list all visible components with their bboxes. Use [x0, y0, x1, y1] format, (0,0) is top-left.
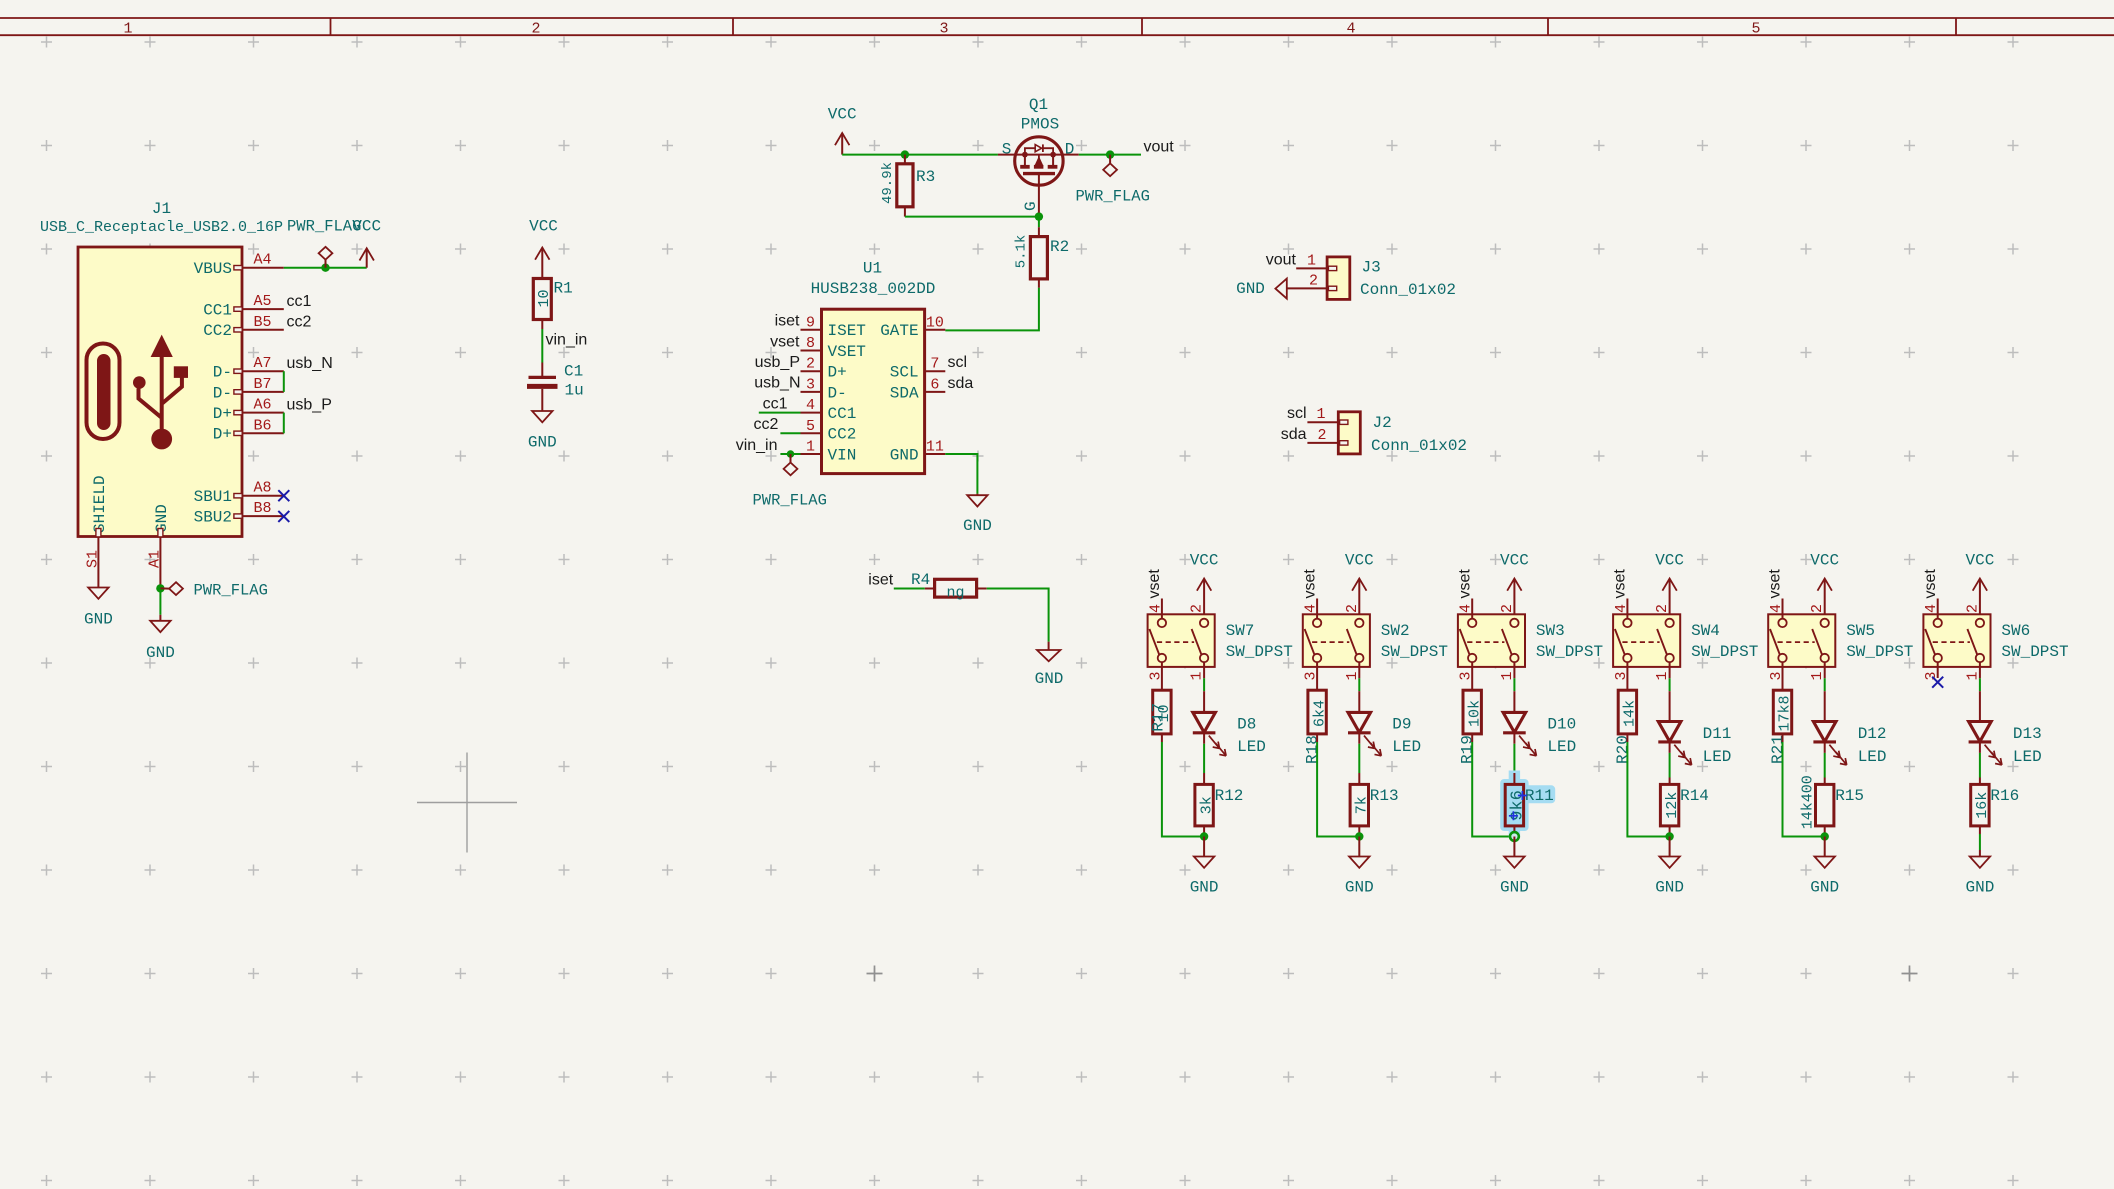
wire usb_P (A6-B6) [283, 413, 285, 434]
power VCC at SW6 [1965, 551, 1994, 619]
junction [1665, 832, 1673, 840]
pin 1 of SW7 [1189, 662, 1206, 680]
svg-text:VIN: VIN [828, 446, 857, 464]
power VCC at SW7 [1190, 551, 1219, 619]
no-connect X [1932, 677, 1943, 688]
ground [88, 588, 108, 599]
svg-text:PMOS: PMOS [1021, 116, 1059, 134]
svg-text:2: 2 [1809, 604, 1826, 613]
pin 3 of SW2 [1303, 671, 1320, 680]
LED D10 [1503, 691, 1576, 756]
power VCC [541, 248, 543, 279]
wire switch pin1 to LED [1358, 678, 1360, 691]
LED D8 [1193, 691, 1266, 756]
switch SW4 SW_DPST [1613, 614, 1758, 667]
selection anchor marks [1509, 791, 1527, 820]
svg-text:VCC: VCC [1345, 551, 1374, 569]
svg-text:SW_DPST: SW_DPST [1381, 643, 1448, 661]
power VCC [1669, 579, 1671, 620]
wire LED to resistor [1203, 744, 1205, 773]
svg-text:D12: D12 [1858, 725, 1887, 743]
pin 3 of SW6 [1923, 671, 1940, 680]
svg-text:SCL: SCL [890, 364, 919, 382]
wire LED to resistor [1669, 753, 1671, 778]
svg-text:S1: S1 [84, 550, 101, 568]
svg-text:4: 4 [1923, 604, 1940, 613]
svg-text:CC2: CC2 [828, 426, 857, 444]
svg-text:9: 9 [806, 314, 815, 331]
svg-text:cc2: cc2 [753, 416, 778, 433]
svg-text:vout: vout [1144, 138, 1175, 155]
pin B6 of J1 [234, 417, 284, 435]
svg-text:SW3: SW3 [1536, 622, 1565, 640]
pin A8 of J1 [234, 480, 284, 498]
ground [1659, 857, 1679, 868]
svg-text:HUSB238_002DD: HUSB238_002DD [811, 280, 936, 298]
resistor R4 nq [911, 571, 987, 601]
svg-text:R20: R20 [1614, 735, 1632, 764]
svg-text:U1: U1 [863, 260, 882, 278]
svg-text:GATE: GATE [880, 322, 918, 340]
svg-text:J2: J2 [1373, 414, 1392, 432]
svg-text:D8: D8 [1237, 715, 1256, 733]
svg-text:D-: D- [213, 364, 232, 382]
resistor R1 [533, 279, 572, 320]
svg-text:LED: LED [1237, 738, 1266, 756]
svg-text:2: 2 [1654, 604, 1671, 613]
svg-text:12k: 12k [1664, 792, 1681, 819]
resistor R16 16k [1971, 778, 2020, 826]
pin A7 of J1 [234, 355, 284, 373]
junction [1355, 832, 1363, 840]
pin 4 of SW3 [1458, 599, 1475, 620]
svg-text:VSET: VSET [828, 343, 866, 361]
svg-text:vin_in: vin_in [736, 437, 778, 454]
svg-text:GND: GND [1965, 878, 1994, 896]
svg-text:R15: R15 [1835, 787, 1864, 805]
ground [967, 495, 987, 506]
svg-text:SBU1: SBU1 [194, 488, 232, 506]
svg-text:A1: A1 [146, 550, 163, 568]
wire to junction [1162, 742, 1204, 837]
svg-text:2: 2 [806, 356, 815, 373]
resistor R19 10k [1459, 662, 1484, 764]
svg-text:D9: D9 [1392, 715, 1411, 733]
ground [532, 411, 552, 422]
svg-text:D10: D10 [1547, 715, 1576, 733]
power VCC at SW3 [1500, 551, 1529, 619]
svg-text:4: 4 [1613, 604, 1630, 613]
pin 1 of SW4 [1654, 662, 1671, 680]
svg-text:A5: A5 [253, 293, 271, 310]
svg-text:VCC: VCC [1500, 551, 1529, 569]
resistor R17 10 [1149, 662, 1173, 742]
wire usb_N (A7-B7) [283, 371, 285, 392]
svg-text:2: 2 [1499, 604, 1516, 613]
pin A6 of J1 [234, 397, 284, 415]
LED D9 [1348, 691, 1421, 756]
svg-text:LED: LED [1547, 738, 1576, 756]
svg-text:R2: R2 [1050, 238, 1069, 256]
svg-text:SW_DPST: SW_DPST [2001, 643, 2068, 661]
svg-text:SW7: SW7 [1226, 622, 1255, 640]
power VCC [1203, 579, 1205, 620]
junction [1200, 832, 1208, 840]
svg-text:SW_DPST: SW_DPST [1691, 643, 1758, 661]
resistor R18 6k4 [1304, 662, 1329, 764]
pin A5 of J1 [234, 293, 284, 311]
svg-text:PWR_FLAG: PWR_FLAG [194, 581, 268, 599]
svg-text:C1: C1 [564, 363, 583, 381]
svg-text:B8: B8 [253, 500, 271, 517]
svg-text:scl: scl [948, 354, 968, 371]
wire switch pin1 to LED [1669, 678, 1671, 691]
svg-text:vin_in: vin_in [546, 331, 588, 348]
svg-text:R16: R16 [1990, 787, 2019, 805]
switch SW2 SW_DPST [1303, 614, 1448, 667]
pin 4 CC1 of U1 [801, 397, 857, 423]
svg-text:VBUS: VBUS [194, 260, 232, 278]
svg-text:vset: vset [1612, 569, 1629, 599]
svg-text:R1: R1 [554, 280, 573, 298]
power VCC at SW5 [1810, 551, 1839, 619]
svg-text:vset: vset [1301, 569, 1318, 599]
svg-text:B5: B5 [253, 314, 271, 331]
resistor R11 9k6 [1500, 771, 1555, 839]
svg-text:1: 1 [1307, 252, 1316, 269]
svg-text:16k: 16k [1974, 792, 1991, 819]
switch SW5 SW_DPST [1768, 614, 1913, 667]
svg-text:D11: D11 [1703, 725, 1732, 743]
power VCC above R1 [529, 218, 558, 279]
svg-text:LED: LED [2013, 748, 2042, 766]
pin 3 of SW4 [1613, 671, 1630, 680]
wire to junction [1783, 742, 1825, 837]
svg-text:G: G [1022, 201, 1040, 211]
transistor Q1 PMOS [998, 96, 1074, 213]
svg-text:7: 7 [930, 356, 939, 373]
svg-text:VCC: VCC [529, 218, 558, 236]
junction [321, 264, 329, 272]
connector J2 Conn_01x02 [1338, 412, 1467, 455]
svg-text:A6: A6 [253, 397, 271, 414]
svg-text:A7: A7 [253, 355, 271, 372]
no-connect on SBU2 [278, 511, 289, 522]
svg-text:D+: D+ [828, 364, 847, 382]
ground [1815, 857, 1835, 868]
svg-text:49.9k: 49.9k [880, 162, 896, 204]
IC U1 HUSB238_002DD [811, 260, 936, 474]
svg-text:4: 4 [1458, 604, 1475, 613]
svg-text:GND: GND [1035, 670, 1064, 688]
pin 4 of SW2 [1303, 599, 1320, 620]
pin 4 of SW5 [1768, 599, 1785, 620]
svg-text:1: 1 [1316, 406, 1325, 423]
pin 1 of J2 [1307, 421, 1338, 423]
svg-text:D-: D- [213, 384, 232, 402]
pin 3 of SW5 [1768, 671, 1785, 680]
junction [1035, 212, 1043, 220]
wire to junction [1627, 742, 1669, 837]
svg-text:VCC: VCC [1190, 551, 1219, 569]
svg-text:6: 6 [930, 376, 939, 393]
svg-text:10: 10 [536, 289, 553, 307]
pin 11 GND of U1 [890, 439, 946, 465]
power flag PWR_FLAG on GND [160, 581, 268, 599]
power VCC on VBUS [352, 218, 381, 268]
power GND arrow at J3 [1236, 279, 1287, 299]
svg-text:VCC: VCC [1810, 551, 1839, 569]
resistor R14 12k [1660, 778, 1709, 826]
ground [1194, 857, 1214, 868]
svg-text:17k8: 17k8 [1777, 695, 1794, 731]
svg-text:usb_N: usb_N [287, 355, 333, 372]
pin A4 of J1 [234, 252, 284, 270]
wire cc2 to CC2 [780, 432, 800, 434]
wire switch pin1 to LED [1203, 678, 1205, 691]
pin 1 of SW6 [1964, 662, 1981, 680]
wire switch pin1 to LED [1513, 678, 1515, 691]
pin 4 of SW4 [1613, 599, 1630, 620]
switch SW7 SW_DPST [1148, 614, 1293, 667]
pin 1 VIN of U1 [801, 439, 857, 465]
wire GND A1 [159, 578, 161, 588]
pin 6 SDA of U1 [890, 376, 946, 402]
svg-text:3: 3 [806, 376, 815, 393]
svg-text:cc1: cc1 [763, 396, 788, 413]
svg-text:vout: vout [1266, 251, 1297, 268]
wire iset to R4 [894, 588, 925, 590]
svg-text:CC1: CC1 [203, 302, 232, 320]
svg-text:vset: vset [1767, 569, 1784, 599]
svg-text:GND: GND [1810, 878, 1839, 896]
svg-text:SW4: SW4 [1691, 622, 1720, 640]
wire vin_in to VIN [780, 453, 800, 455]
svg-text:6k4: 6k4 [1311, 700, 1328, 727]
svg-text:GND: GND [1655, 878, 1684, 896]
svg-text:VCC: VCC [828, 106, 857, 124]
pin B7 of J1 [234, 376, 284, 394]
wire switch pin1 to LED [1824, 678, 1826, 691]
svg-text:iset: iset [775, 313, 800, 330]
svg-text:LED: LED [1703, 748, 1732, 766]
svg-text:R14: R14 [1680, 787, 1709, 805]
svg-text:vset: vset [1456, 569, 1473, 599]
wire VCC to S [842, 154, 998, 156]
svg-text:SW5: SW5 [1846, 622, 1875, 640]
svg-text:J3: J3 [1362, 259, 1381, 277]
ground [1037, 650, 1060, 661]
svg-text:SW_DPST: SW_DPST [1536, 643, 1603, 661]
svg-text:vset: vset [1922, 569, 1939, 599]
pin 2 of J2 [1307, 442, 1338, 444]
resistor R2 5.1k [1013, 227, 1069, 288]
wire VBUS [284, 267, 367, 269]
svg-text:GND: GND [890, 446, 919, 464]
pin A1 of J1 [146, 529, 163, 579]
svg-text:A4: A4 [253, 252, 271, 269]
svg-text:GND: GND [1236, 280, 1265, 298]
svg-text:R19: R19 [1459, 735, 1477, 764]
wire gate to R2 [1038, 217, 1040, 228]
svg-text:5: 5 [1751, 21, 1760, 38]
power VCC [366, 248, 368, 267]
pin 2 D+ of U1 [801, 356, 847, 382]
pin 10 GATE of U1 [880, 314, 945, 340]
junction (selected) [1510, 832, 1519, 841]
power VCC [1979, 579, 1981, 620]
resistor R3 49.9k [880, 155, 935, 217]
wire LED to resistor [1358, 744, 1360, 773]
svg-text:5: 5 [806, 418, 815, 435]
LED D11 [1658, 691, 1731, 766]
wire LED to resistor [1824, 753, 1826, 778]
junction [156, 584, 164, 592]
svg-text:SW6: SW6 [2001, 622, 2030, 640]
svg-text:GND: GND [963, 517, 992, 535]
svg-text:10k: 10k [1466, 700, 1483, 727]
svg-text:LED: LED [1858, 748, 1887, 766]
wire vin_in [541, 320, 543, 330]
svg-text:SW2: SW2 [1381, 622, 1410, 640]
connector J3 Conn_01x02 [1327, 257, 1456, 300]
svg-text:LED: LED [1392, 738, 1421, 756]
svg-text:2: 2 [1964, 604, 1981, 613]
svg-text:scl: scl [1287, 405, 1307, 422]
svg-text:D+: D+ [213, 405, 232, 423]
svg-text:3: 3 [939, 21, 948, 38]
svg-text:4: 4 [1303, 604, 1320, 613]
svg-text:R18: R18 [1304, 735, 1322, 764]
junction [1821, 832, 1829, 840]
wire to junction [1472, 742, 1514, 837]
svg-text:2: 2 [531, 21, 540, 38]
pin B8 of J1 [234, 500, 284, 518]
svg-text:5.1k: 5.1k [1013, 235, 1029, 269]
svg-text:ISET: ISET [828, 322, 866, 340]
svg-text:4: 4 [1147, 604, 1164, 613]
svg-text:4: 4 [806, 397, 815, 414]
svg-text:SW_DPST: SW_DPST [1846, 643, 1913, 661]
svg-text:1: 1 [806, 439, 815, 456]
svg-text:A8: A8 [253, 480, 271, 497]
pin 4 of SW6 [1923, 599, 1940, 620]
capacitor C1 1u [527, 363, 584, 400]
svg-text:vset: vset [1146, 569, 1163, 599]
resistor R12 3k [1195, 773, 1244, 826]
no-connect on SBU1 [278, 490, 289, 501]
pin 1 of SW2 [1344, 662, 1361, 680]
resistor R20 14k [1614, 662, 1639, 764]
svg-text:2: 2 [1189, 604, 1206, 613]
junction [901, 150, 909, 158]
svg-text:3k: 3k [1198, 796, 1215, 814]
svg-text:S: S [1002, 141, 1012, 159]
svg-text:1: 1 [1654, 671, 1671, 680]
svg-text:iset: iset [868, 571, 893, 588]
power flag PWR_FLAG on VBUS [287, 218, 361, 268]
svg-text:GND: GND [1190, 878, 1219, 896]
junction [1106, 150, 1114, 158]
svg-text:Conn_01x02: Conn_01x02 [1360, 281, 1456, 299]
power VCC at SW4 [1655, 551, 1684, 619]
wire R4 to GND [987, 589, 1049, 642]
junction [787, 450, 795, 458]
resistor R13 7k [1350, 773, 1399, 826]
pin 3 of SW3 [1458, 671, 1475, 680]
svg-text:1: 1 [1964, 671, 1981, 680]
ground [1349, 857, 1369, 868]
pin 7 SCL of U1 [890, 356, 946, 382]
svg-text:Q1: Q1 [1029, 96, 1048, 114]
svg-text:R11: R11 [1525, 787, 1554, 805]
wire gate stub [1038, 213, 1040, 217]
svg-text:8: 8 [806, 335, 815, 352]
wire cc1 to CC1 [759, 412, 801, 414]
svg-text:GND: GND [1345, 878, 1374, 896]
svg-text:R12: R12 [1215, 787, 1244, 805]
svg-text:PWR_FLAG: PWR_FLAG [1076, 187, 1150, 205]
svg-text:R17: R17 [1149, 703, 1167, 732]
svg-text:2: 2 [1309, 272, 1318, 289]
svg-text:4: 4 [1768, 604, 1785, 613]
svg-text:1: 1 [1809, 671, 1826, 680]
svg-text:J1: J1 [152, 200, 171, 218]
svg-text:R4: R4 [911, 571, 930, 589]
pin 1 of SW5 [1809, 662, 1826, 680]
pin 1 of SW3 [1499, 662, 1516, 680]
power VCC [1513, 579, 1515, 620]
svg-text:usb_N: usb_N [754, 375, 800, 392]
power VCC at SW2 [1345, 551, 1374, 619]
svg-text:SBU2: SBU2 [194, 509, 232, 527]
svg-text:2: 2 [1317, 427, 1326, 444]
svg-text:1: 1 [1189, 671, 1206, 680]
power VCC [1358, 579, 1360, 620]
svg-text:7k: 7k [1354, 796, 1371, 814]
svg-text:cc2: cc2 [287, 313, 312, 330]
pin 4 of SW7 [1147, 599, 1164, 620]
svg-text:usb_P: usb_P [755, 354, 800, 371]
svg-text:sda: sda [1281, 426, 1307, 443]
power VCC [1824, 579, 1826, 620]
ground [150, 621, 170, 632]
svg-text:B7: B7 [253, 376, 271, 393]
svg-text:GND: GND [84, 611, 113, 629]
svg-text:VCC: VCC [352, 218, 381, 236]
svg-text:SDA: SDA [890, 384, 919, 402]
svg-text:GND: GND [146, 644, 175, 662]
svg-text:R13: R13 [1370, 787, 1399, 805]
svg-text:usb_P: usb_P [287, 396, 332, 413]
svg-text:CC1: CC1 [828, 405, 857, 423]
power VCC at Q1 source [828, 106, 857, 155]
svg-text:Conn_01x02: Conn_01x02 [1371, 437, 1467, 455]
svg-text:11: 11 [926, 439, 944, 456]
LED D12 [1813, 691, 1886, 766]
pin 2 of J3 [1287, 287, 1327, 289]
wire LED to resistor [1513, 744, 1515, 773]
resistor R21 17k8 [1769, 662, 1794, 764]
switch SW3 SW_DPST [1458, 614, 1603, 667]
svg-text:14k400: 14k400 [1800, 775, 1817, 829]
svg-text:cc1: cc1 [287, 293, 312, 310]
svg-text:2: 2 [1344, 604, 1361, 613]
wire R3 to gate node [905, 216, 1039, 218]
switch SW6 SW_DPST [1923, 614, 2068, 667]
wire LED to resistor [1979, 753, 1981, 778]
power flag PWR_FLAG on vout [1076, 155, 1150, 206]
